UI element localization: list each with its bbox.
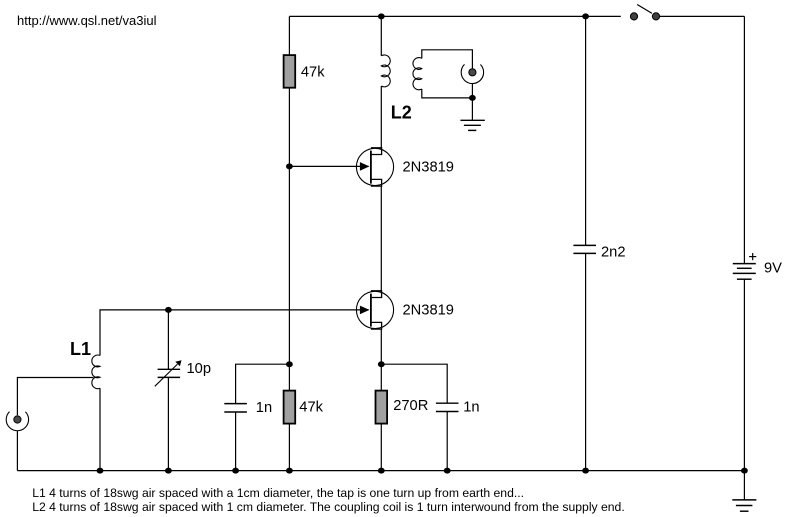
wire J1 shell to ground bus [16,431,18,471]
svg-text:L1 4 turns of 18swg air spaced: L1 4 turns of 18swg air spaced with a 1c… [32,486,524,500]
plus sign battery polarity [749,253,756,260]
resistor R4 270R [376,391,388,424]
wire top bus right segment [660,15,745,17]
wire ground bus [17,470,744,472]
svg-text:L2: L2 [391,102,412,122]
svg-text:47k: 47k [299,400,323,416]
connector J1 input [6,412,28,431]
wire 2n2 branch top [585,16,587,245]
svg-text:1n: 1n [256,400,272,416]
capacitor C4 1n [436,403,459,411]
transistor Q1 2N3819 [356,148,393,186]
node junction top bus at 2n2 branch [582,13,589,19]
wire battery branch top [743,16,745,263]
wire 2n2 branch bottom [585,253,587,470]
wire gate of Q2 from L1 top [100,310,369,356]
svg-text:L1: L1 [70,339,91,359]
capacitor C3 2n2 [573,245,596,253]
wire R3 bottom to ground bus [288,424,290,471]
wire top bus left segment (V+ rail) [289,15,620,17]
node junction gate bias / C2 [286,361,293,367]
node junction bus C4 [444,468,451,474]
node junction output ground [469,95,476,101]
node junction top bus at x6 [378,13,385,19]
wire R1 bottom down through gate node to R3 [288,88,290,391]
wire L2 bottom to Q1 drain [380,86,382,148]
wire C2 bottom to ground bus [235,412,237,471]
variable capacitor C1 10p [155,310,182,471]
wire Q1 source to Q2 drain [380,186,382,291]
svg-text:47k: 47k [301,64,325,80]
resistor R1 47k [284,55,296,88]
svg-text:2N3819: 2N3819 [403,303,454,319]
node junction 10p top [165,307,172,313]
node junction bus L1 [97,468,104,474]
svg-text:2N3819: 2N3819 [403,160,454,176]
wire gate of Q1 [289,165,368,167]
node junction gate of Q1 [286,163,293,169]
wire L1 bottom to ground bus [99,388,101,470]
ground symbol output [460,98,484,130]
switch S1 [630,5,659,21]
node junction bus C2 [232,468,239,474]
wire C4 bottom to ground bus [446,412,448,471]
node junction bus R4 [378,468,385,474]
battery BT1 9V [733,264,756,280]
node junction bus 10p [165,468,172,474]
wire R4 bottom to ground bus [380,424,382,471]
transistor Q2 2N3819 [356,291,393,329]
wire left rail down to R1 [288,16,290,55]
connector J2 output [461,64,483,83]
ground symbol main [732,471,756,512]
node junction bus C3 [582,468,589,474]
wire top bus down to L2 [380,16,382,55]
inductor L2 coupling winding [413,58,422,90]
wire source node to C4 [381,364,447,403]
inductor L1 winding [92,355,100,389]
resistor R3 47k [284,391,296,424]
svg-text:9V: 9V [764,261,782,277]
wire coupling coil bottom to output node [422,89,473,98]
wire battery bottom to ground bus [743,279,745,470]
svg-text:1n: 1n [463,399,479,415]
node junction bus R3 [286,468,293,474]
node junction Q2 source [378,361,385,367]
svg-text:10p: 10p [187,361,212,377]
wire Q2 source to source node [380,329,382,391]
svg-text:2n2: 2n2 [601,244,626,260]
wire bias node to C2 [236,364,290,403]
svg-text:270R: 270R [393,398,428,414]
wire connector to ground node [471,84,473,98]
wire L1 tap to input connector [17,378,93,416]
capacitor C2 1n [224,404,247,412]
svg-text:http://www.qsl.net/va3iul: http://www.qsl.net/va3iul [17,13,157,28]
svg-text:L2 4 turns of 18swg air spaced: L2 4 turns of 18swg air spaced with 1 cm… [32,500,625,514]
wire coupling coil top to output connector [422,50,473,69]
node junction bus battery [741,468,748,474]
inductor L2 main winding [381,55,390,87]
